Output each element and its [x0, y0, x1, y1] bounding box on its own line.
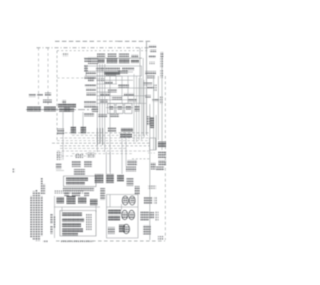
component: bottom-left switch row	[57, 196, 98, 206]
node: dark vertical blob right (timer)	[150, 117, 154, 128]
wire: verticals from latch down	[63, 112, 83, 160]
wire: second dash-dot boundary line	[37, 47, 151, 49]
node: text right of latch	[92, 107, 98, 113]
node: text row under box J	[63, 188, 94, 191]
component: bottom right switch 3	[143, 225, 151, 235]
wire: right mid vertical bundle	[134, 74, 144, 142]
node: right text column row3	[149, 56, 156, 59]
node: bottom caption text	[60, 240, 93, 243]
component: oven sensor ovals	[72, 161, 92, 176]
wire: right vertical line main	[146, 42, 148, 135]
node: text blobs mid row	[84, 113, 119, 117]
component: right box below timer	[150, 138, 156, 150]
node: wire end blobs W	[71, 127, 77, 135]
node: BLK wire label	[62, 53, 68, 56]
component: bottom-center box outline	[107, 195, 139, 239]
wire: top console dashed boundary line	[55, 40, 96, 42]
node: text right of switch 2	[155, 211, 158, 221]
wire: lower center verticals	[106, 133, 126, 174]
node: right text rows cluster	[151, 152, 167, 171]
wire: corner stub left	[56, 170, 64, 172]
node: right text column row1	[149, 45, 157, 48]
wire: left vertical bus 3	[56, 51, 58, 141]
wire: stubs from console down	[116, 76, 128, 103]
component: right mid cluster rows	[108, 128, 133, 138]
component: center lower cluster	[95, 174, 125, 183]
component: dense center wiring grid	[97, 72, 147, 103]
component: latch switch cluster	[58, 104, 76, 112]
node: text right of switch 1	[154, 197, 157, 205]
component: bottom right switch 2	[141, 212, 149, 221]
component: control box J	[64, 176, 97, 187]
node: bake element text cluster	[108, 210, 125, 235]
node: marks right inside box M	[86, 214, 92, 230]
component: surface element oval D	[129, 210, 135, 219]
node: rotated note first lines	[41, 178, 46, 194]
node: right text column row4	[150, 62, 156, 65]
node: console text row 1	[96, 68, 120, 71]
node: right text column row2	[150, 50, 157, 53]
wire: middle dashed bundle	[52, 133, 150, 159]
wire: dashes mid-left	[57, 77, 84, 79]
node: right dark cluster 1	[158, 142, 166, 148]
node: right small mark	[161, 52, 164, 58]
node: console text row 2	[104, 72, 120, 75]
component: mid-left relay cluster	[84, 71, 96, 108]
wire: far right verticals	[150, 57, 166, 240]
node: right text column mid	[147, 117, 151, 126]
wire: third dotted line	[57, 50, 148, 52]
node: left margin speck	[13, 169, 15, 173]
node: text row above bottom-left	[54, 191, 84, 194]
node: bottom small text left	[43, 240, 48, 243]
wire: left vertical bus 2	[47, 48, 49, 107]
component: bottom right switch 1	[144, 197, 152, 205]
node: center bundle dark segment	[97, 128, 102, 145]
wire: bottom-left connections	[54, 196, 100, 238]
component: rotated notes text block	[30, 190, 42, 241]
node: marks row bottom of J	[64, 193, 89, 197]
node: center lower top labels	[126, 160, 137, 186]
wire: bottom dashed line	[56, 240, 165, 242]
node: grid text labels	[100, 71, 137, 103]
wire: line through switch row	[84, 57, 142, 59]
node: dark mark left of bundle	[57, 129, 64, 136]
component: L1 terminal text blobs	[27, 107, 70, 112]
component: surface element oval E	[123, 224, 130, 233]
component: surface element oval B	[129, 196, 135, 205]
wire: right vertical line 3	[142, 58, 144, 135]
wire: right vertical line 2	[139, 48, 141, 104]
component: bottom-left box M	[60, 211, 96, 237]
wire: left vertical bus 1	[38, 48, 40, 107]
component: console left switch cluster	[84, 57, 98, 72]
node: marks above bottom right	[135, 186, 140, 195]
wire: bottom center connections	[107, 195, 139, 211]
node: right vertical wire labels	[154, 58, 163, 104]
node: marks below console box	[88, 78, 94, 82]
node: junction blob left	[56, 163, 62, 169]
component: surface element oval A	[122, 196, 128, 205]
node: marks below switch 3	[158, 236, 164, 240]
wire: left main dash-dot line L1	[26, 109, 96, 111]
node: marks above left oven cluster	[57, 152, 96, 160]
component: console outline box	[86, 66, 142, 76]
wire: center vertical bundle	[97, 64, 110, 172]
node: vertical text left of center box	[100, 188, 105, 200]
component: surface element oval C	[122, 210, 128, 219]
component: console switch/indicator row	[97, 54, 139, 58]
node: console text right	[122, 68, 134, 71]
node: left terminal text row A	[29, 93, 51, 97]
node: box M text rows	[62, 213, 84, 236]
wire: dotted stub y153	[148, 152, 156, 154]
component: right relay cluster top	[143, 71, 159, 102]
node: box J text	[66, 178, 88, 181]
component: three small boxes row center	[108, 104, 133, 114]
node: small marks near timer	[147, 116, 150, 125]
node: small marks row B	[43, 100, 66, 105]
node: vertical text left of box M	[51, 214, 56, 234]
